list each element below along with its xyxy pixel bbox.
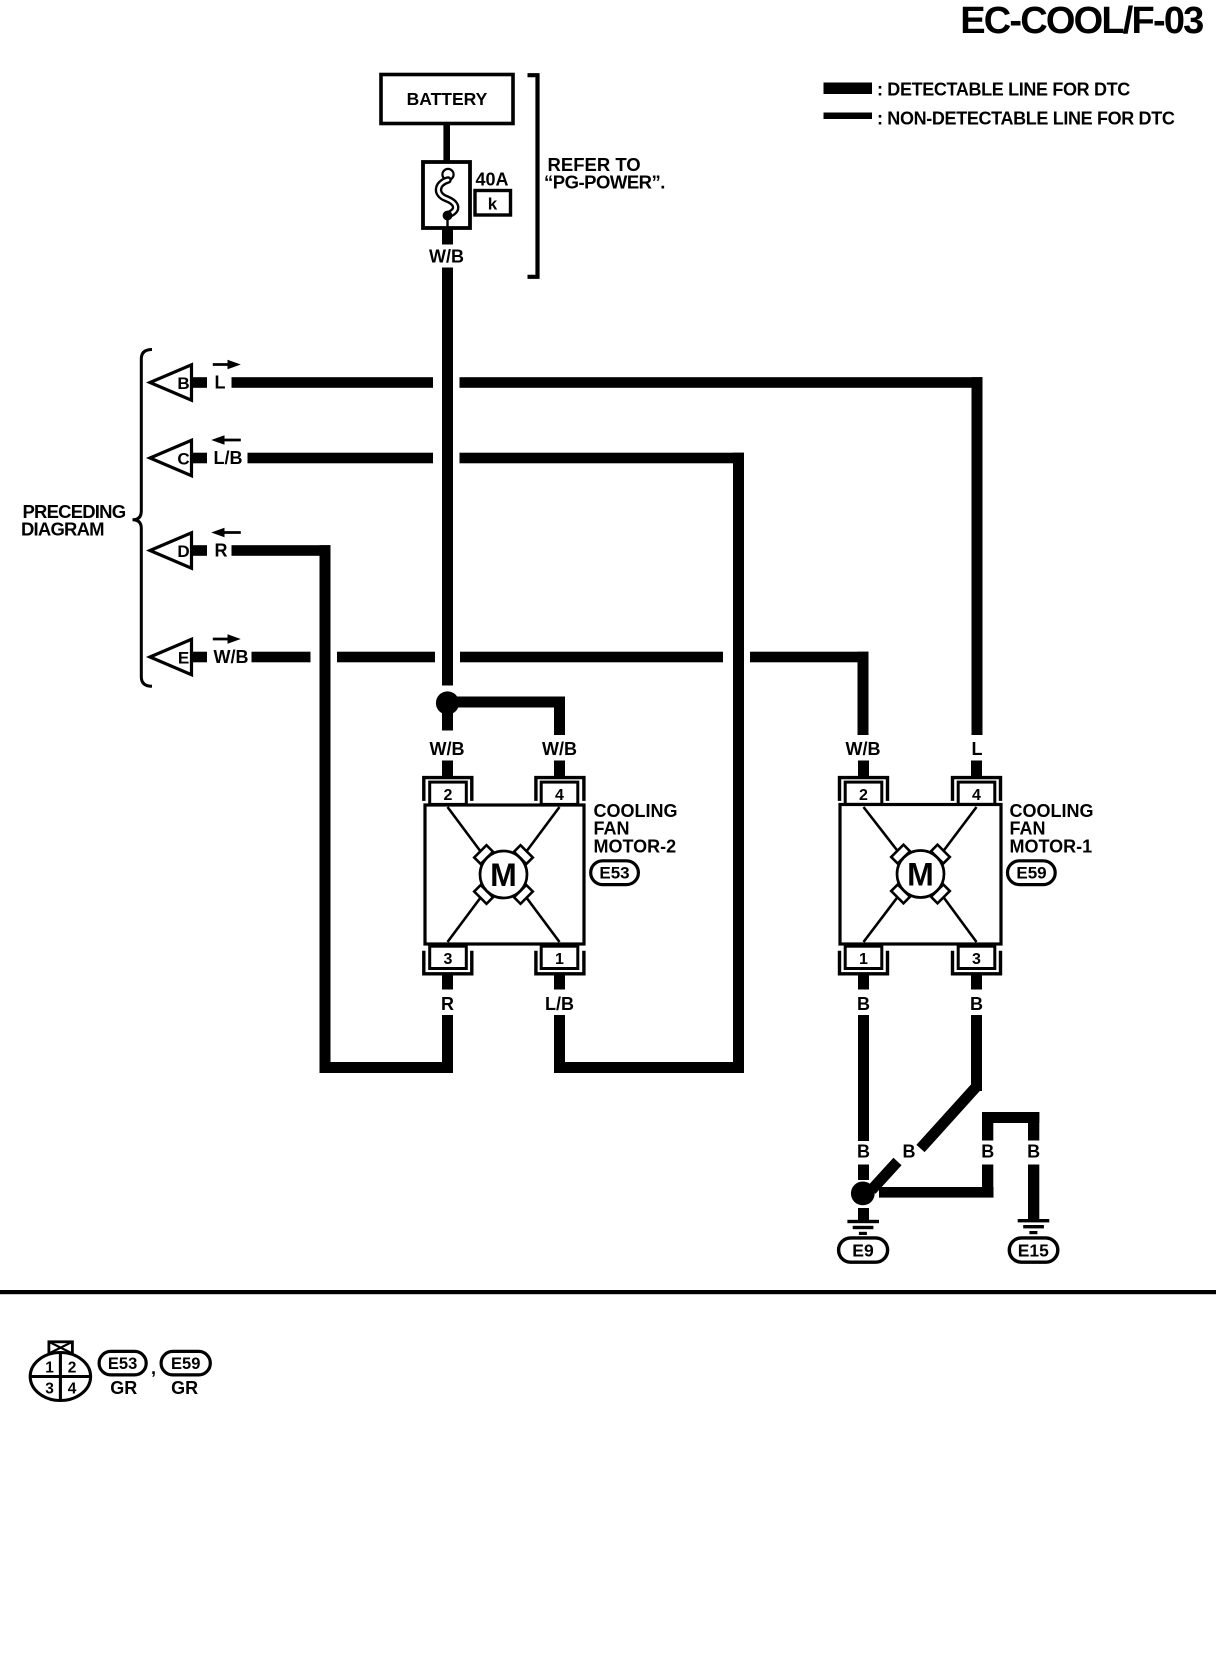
connector face cross lines <box>30 1375 90 1378</box>
motor-1 pin 4 box <box>958 782 995 804</box>
svg-text:L/B: L/B <box>545 994 574 1014</box>
motor-2 pin 4 bracket <box>536 778 584 801</box>
motor-2 pin 3 box <box>430 946 467 968</box>
svg-text:k: k <box>488 195 498 214</box>
motor-1 brush NW <box>891 845 910 864</box>
arrow left row C <box>222 439 241 442</box>
svg-text:3: 3 <box>444 951 453 968</box>
svg-text:B: B <box>1027 1142 1040 1162</box>
svg-text:40A: 40A <box>476 170 509 190</box>
motor-2 brush NE <box>514 845 533 864</box>
motor-1 M circle <box>897 851 944 898</box>
legend non-detectable line sample bar <box>824 113 873 120</box>
svg-text:R: R <box>441 994 454 1014</box>
svg-text:4: 4 <box>972 787 981 804</box>
motor-2 body box <box>425 805 584 944</box>
wire L/B vertical down <box>733 453 744 1073</box>
wire W/B vertical to motor-1 pin2 <box>858 652 869 735</box>
svg-text:B: B <box>857 994 870 1014</box>
motor-1 pin 1 box <box>845 946 882 968</box>
wire B stub above ground dot <box>858 1165 869 1181</box>
motor-2 M circle <box>480 851 527 898</box>
svg-text:EC-COOL/F-03: EC-COOL/F-03 <box>960 0 1203 42</box>
connector face ellipse <box>30 1353 90 1401</box>
svg-text:1: 1 <box>45 1360 54 1377</box>
motor-1 brush lead from pin 1 <box>864 897 899 943</box>
wire L vertical to motor-1 pin4 <box>972 377 983 735</box>
svg-text:GR: GR <box>171 1378 198 1398</box>
connector triangle E <box>150 639 192 674</box>
motor-2 brush lead from pin 4 <box>526 807 560 852</box>
svg-text:L: L <box>215 373 226 393</box>
motor-1 brush lead from pin 2 <box>864 807 899 852</box>
wire B n-shape left leg lower <box>982 1165 993 1198</box>
motor-2 brush lead from pin 3 <box>448 897 482 942</box>
wire B n-shape top bar <box>982 1112 1039 1123</box>
wire R bottom horizontal <box>320 1062 454 1073</box>
svg-text:MOTOR-2: MOTOR-2 <box>594 837 677 857</box>
ground connector E9 oval <box>839 1238 888 1262</box>
svg-text:: DETECTABLE LINE FOR DTC: : DETECTABLE LINE FOR DTC <box>877 80 1130 100</box>
wire W/B row E segment 4 <box>750 652 869 663</box>
wire W/B row E segment 2 <box>337 652 435 663</box>
wire B motor-1 pin1 vertical <box>858 1015 869 1141</box>
motor-2 brush lead from pin 2 <box>448 807 482 852</box>
motor-1 brush SW <box>891 884 910 903</box>
svg-text:B: B <box>903 1142 916 1162</box>
svg-text:1: 1 <box>859 951 868 968</box>
ground stub E9 <box>858 1208 869 1221</box>
wire L row B segment 2 <box>460 377 983 388</box>
wire B diagonal segment lower <box>872 1162 898 1191</box>
motor-1 pin 2 bracket <box>840 778 888 801</box>
motor-2 pin 3 bracket <box>424 951 472 974</box>
wire stub to motor-1 pin4 <box>971 761 982 777</box>
connector face tab <box>49 1342 73 1354</box>
ground symbol E15 <box>1018 1219 1050 1222</box>
motor-1 pin 2 box <box>845 782 882 804</box>
cooling fan motor-2 E53 <box>424 778 678 974</box>
wire B n-shape right leg upper <box>1028 1112 1039 1141</box>
svg-text:E53: E53 <box>108 1355 137 1373</box>
connector triangle C <box>150 440 192 475</box>
wire stub triangle B <box>193 377 207 388</box>
svg-text:MOTOR-1: MOTOR-1 <box>1010 837 1093 857</box>
svg-text:D: D <box>177 542 189 561</box>
fuse element bottom lead <box>446 215 448 227</box>
svg-text:B: B <box>177 374 189 393</box>
svg-text:E: E <box>178 649 189 668</box>
wire stub to motor-2 pin4 <box>554 761 565 777</box>
motor-2 brush SE <box>514 885 533 904</box>
motor-2 pin 4 box <box>541 782 578 804</box>
wire R vertical down <box>320 545 331 1073</box>
motor-2 brush lead from pin 1 <box>526 897 560 942</box>
fuse element S-curve <box>438 180 455 215</box>
fuse slot k box <box>475 191 511 216</box>
svg-text:4: 4 <box>68 1381 77 1398</box>
wire L row B segment 1 <box>232 377 434 388</box>
wire B n-shape left leg upper <box>982 1112 993 1141</box>
svg-text:W/B: W/B <box>214 647 249 667</box>
svg-text:M: M <box>907 857 934 893</box>
svg-text:4: 4 <box>555 787 564 804</box>
svg-text:2: 2 <box>444 787 453 804</box>
section separator line <box>0 1290 1216 1294</box>
wire W/B fuse to label stub <box>442 228 453 245</box>
svg-text:B: B <box>970 994 983 1014</box>
svg-text:BATTERY: BATTERY <box>407 89 488 109</box>
motor-1 brush SE <box>931 884 950 903</box>
svg-text:W/B: W/B <box>542 739 577 759</box>
motor-1 pin 4 bracket <box>953 778 1001 801</box>
wire B diagonal segment upper <box>921 1087 977 1149</box>
wire stub triangle C <box>193 453 207 464</box>
motor-2 pin 2 bracket <box>424 778 472 801</box>
svg-text:W/B: W/B <box>846 739 881 759</box>
motor-2 pin 1 bracket <box>536 951 584 974</box>
preceding diagram brace <box>133 350 153 687</box>
svg-text:B: B <box>981 1142 994 1162</box>
ground junction dot <box>851 1182 875 1206</box>
svg-text:FAN: FAN <box>594 819 630 839</box>
arrow right row E <box>213 638 230 641</box>
svg-text:3: 3 <box>45 1381 54 1398</box>
svg-text:GR: GR <box>110 1378 137 1398</box>
arrow right row B <box>213 363 230 366</box>
ground symbol E9 <box>847 1220 879 1223</box>
motor-1 pin 1 bracket <box>840 951 888 974</box>
svg-text:W/B: W/B <box>429 247 464 267</box>
svg-text:3: 3 <box>972 951 981 968</box>
wire W/B main vertical <box>442 268 453 686</box>
wire B from motor-1 pin1 stub <box>858 975 869 990</box>
wire B n-shape right leg lower <box>1028 1165 1039 1220</box>
connector triangle D <box>150 533 192 568</box>
wire W/B row E segment 3 <box>460 652 723 663</box>
svg-text:: NON-DETECTABLE LINE FOR DTC: : NON-DETECTABLE LINE FOR DTC <box>877 109 1175 129</box>
motor-1 brush lead from pin 3 <box>943 897 977 943</box>
wire L/B row C segment 1 <box>248 453 434 464</box>
battery B1 box <box>381 75 513 124</box>
svg-text:E15: E15 <box>1018 1241 1049 1261</box>
svg-text:E53: E53 <box>599 864 629 883</box>
svg-text:E59: E59 <box>1016 864 1046 883</box>
wire stub triangle E <box>193 652 207 663</box>
motor-1 pin 3 bracket <box>953 951 1001 974</box>
wire B from motor-1 pin3 stub <box>971 975 982 990</box>
connector triangle B <box>150 365 192 400</box>
svg-text:DIAGRAM: DIAGRAM <box>21 519 104 540</box>
wire B motor-1 pin3 vertical <box>971 1015 982 1091</box>
svg-text:C: C <box>177 450 189 469</box>
motor-1 pin 3 box <box>958 946 995 968</box>
wire L/B up to motor-2 pin1 <box>554 1015 565 1073</box>
wire B ground bus horizontal <box>879 1187 994 1198</box>
junction dot main W/B <box>436 691 459 714</box>
svg-text:2: 2 <box>859 787 868 804</box>
motor-1 brush lead from pin 4 <box>943 807 977 852</box>
svg-text:“PG-POWER”.: “PG-POWER”. <box>544 172 665 193</box>
svg-text:W/B: W/B <box>430 739 465 759</box>
motor-1 connector E59 oval <box>1008 861 1056 885</box>
motor-2 pin 1 box <box>541 946 578 968</box>
svg-text:M: M <box>490 857 517 893</box>
legend detectable line sample bar <box>824 83 873 95</box>
connector ref E53 oval <box>99 1351 146 1375</box>
wire stub to motor-1 pin2 <box>858 761 869 777</box>
svg-text:E9: E9 <box>852 1241 874 1261</box>
wire stub below motor-2 pin3 <box>442 975 453 990</box>
motor-2 pin 2 box <box>430 782 467 804</box>
wire L/B row C segment 2 <box>460 453 745 464</box>
motor-2 brush NW <box>474 845 493 864</box>
svg-text:E59: E59 <box>171 1355 200 1373</box>
ground connector E15 oval <box>1009 1238 1058 1262</box>
arrow left row D <box>222 531 241 534</box>
fuse element bottom dot <box>443 211 453 221</box>
wire battery to fuse <box>443 124 450 168</box>
motor-2 brush SW <box>474 885 493 904</box>
svg-text:1: 1 <box>555 951 564 968</box>
motor-2 connector E53 oval <box>591 861 639 885</box>
cooling fan motor-1 E59 <box>840 778 1094 974</box>
wire W/B row E segment 1 <box>252 652 311 663</box>
svg-text:L: L <box>972 739 983 759</box>
wire stub below motor-2 pin1 <box>554 975 565 990</box>
motor-1 brush NE <box>931 845 950 864</box>
connector ref E59 oval <box>161 1351 210 1375</box>
svg-text:B: B <box>857 1142 870 1162</box>
bracket refer to PG-POWER <box>528 75 538 277</box>
svg-text:,: , <box>151 1358 156 1378</box>
connector face view symbol <box>30 1342 90 1401</box>
wire L/B bottom horizontal <box>554 1062 744 1073</box>
wire R row D segment <box>232 545 331 556</box>
svg-text:L/B: L/B <box>214 448 243 468</box>
fuse F (40A k) box <box>423 162 470 228</box>
fuse element circle <box>442 169 453 180</box>
wire stub to motor-2 pin2 <box>442 761 453 777</box>
wire stub below junction <box>442 711 453 731</box>
wire R up to motor-2 pin3 <box>442 1015 453 1073</box>
svg-text:2: 2 <box>68 1360 77 1377</box>
svg-text:FAN: FAN <box>1010 819 1046 839</box>
wire stub triangle D <box>193 545 207 556</box>
motor-1 body box <box>840 805 1001 945</box>
svg-text:R: R <box>215 541 228 561</box>
wire branch junction to motor-2 pin4 <box>452 697 565 708</box>
